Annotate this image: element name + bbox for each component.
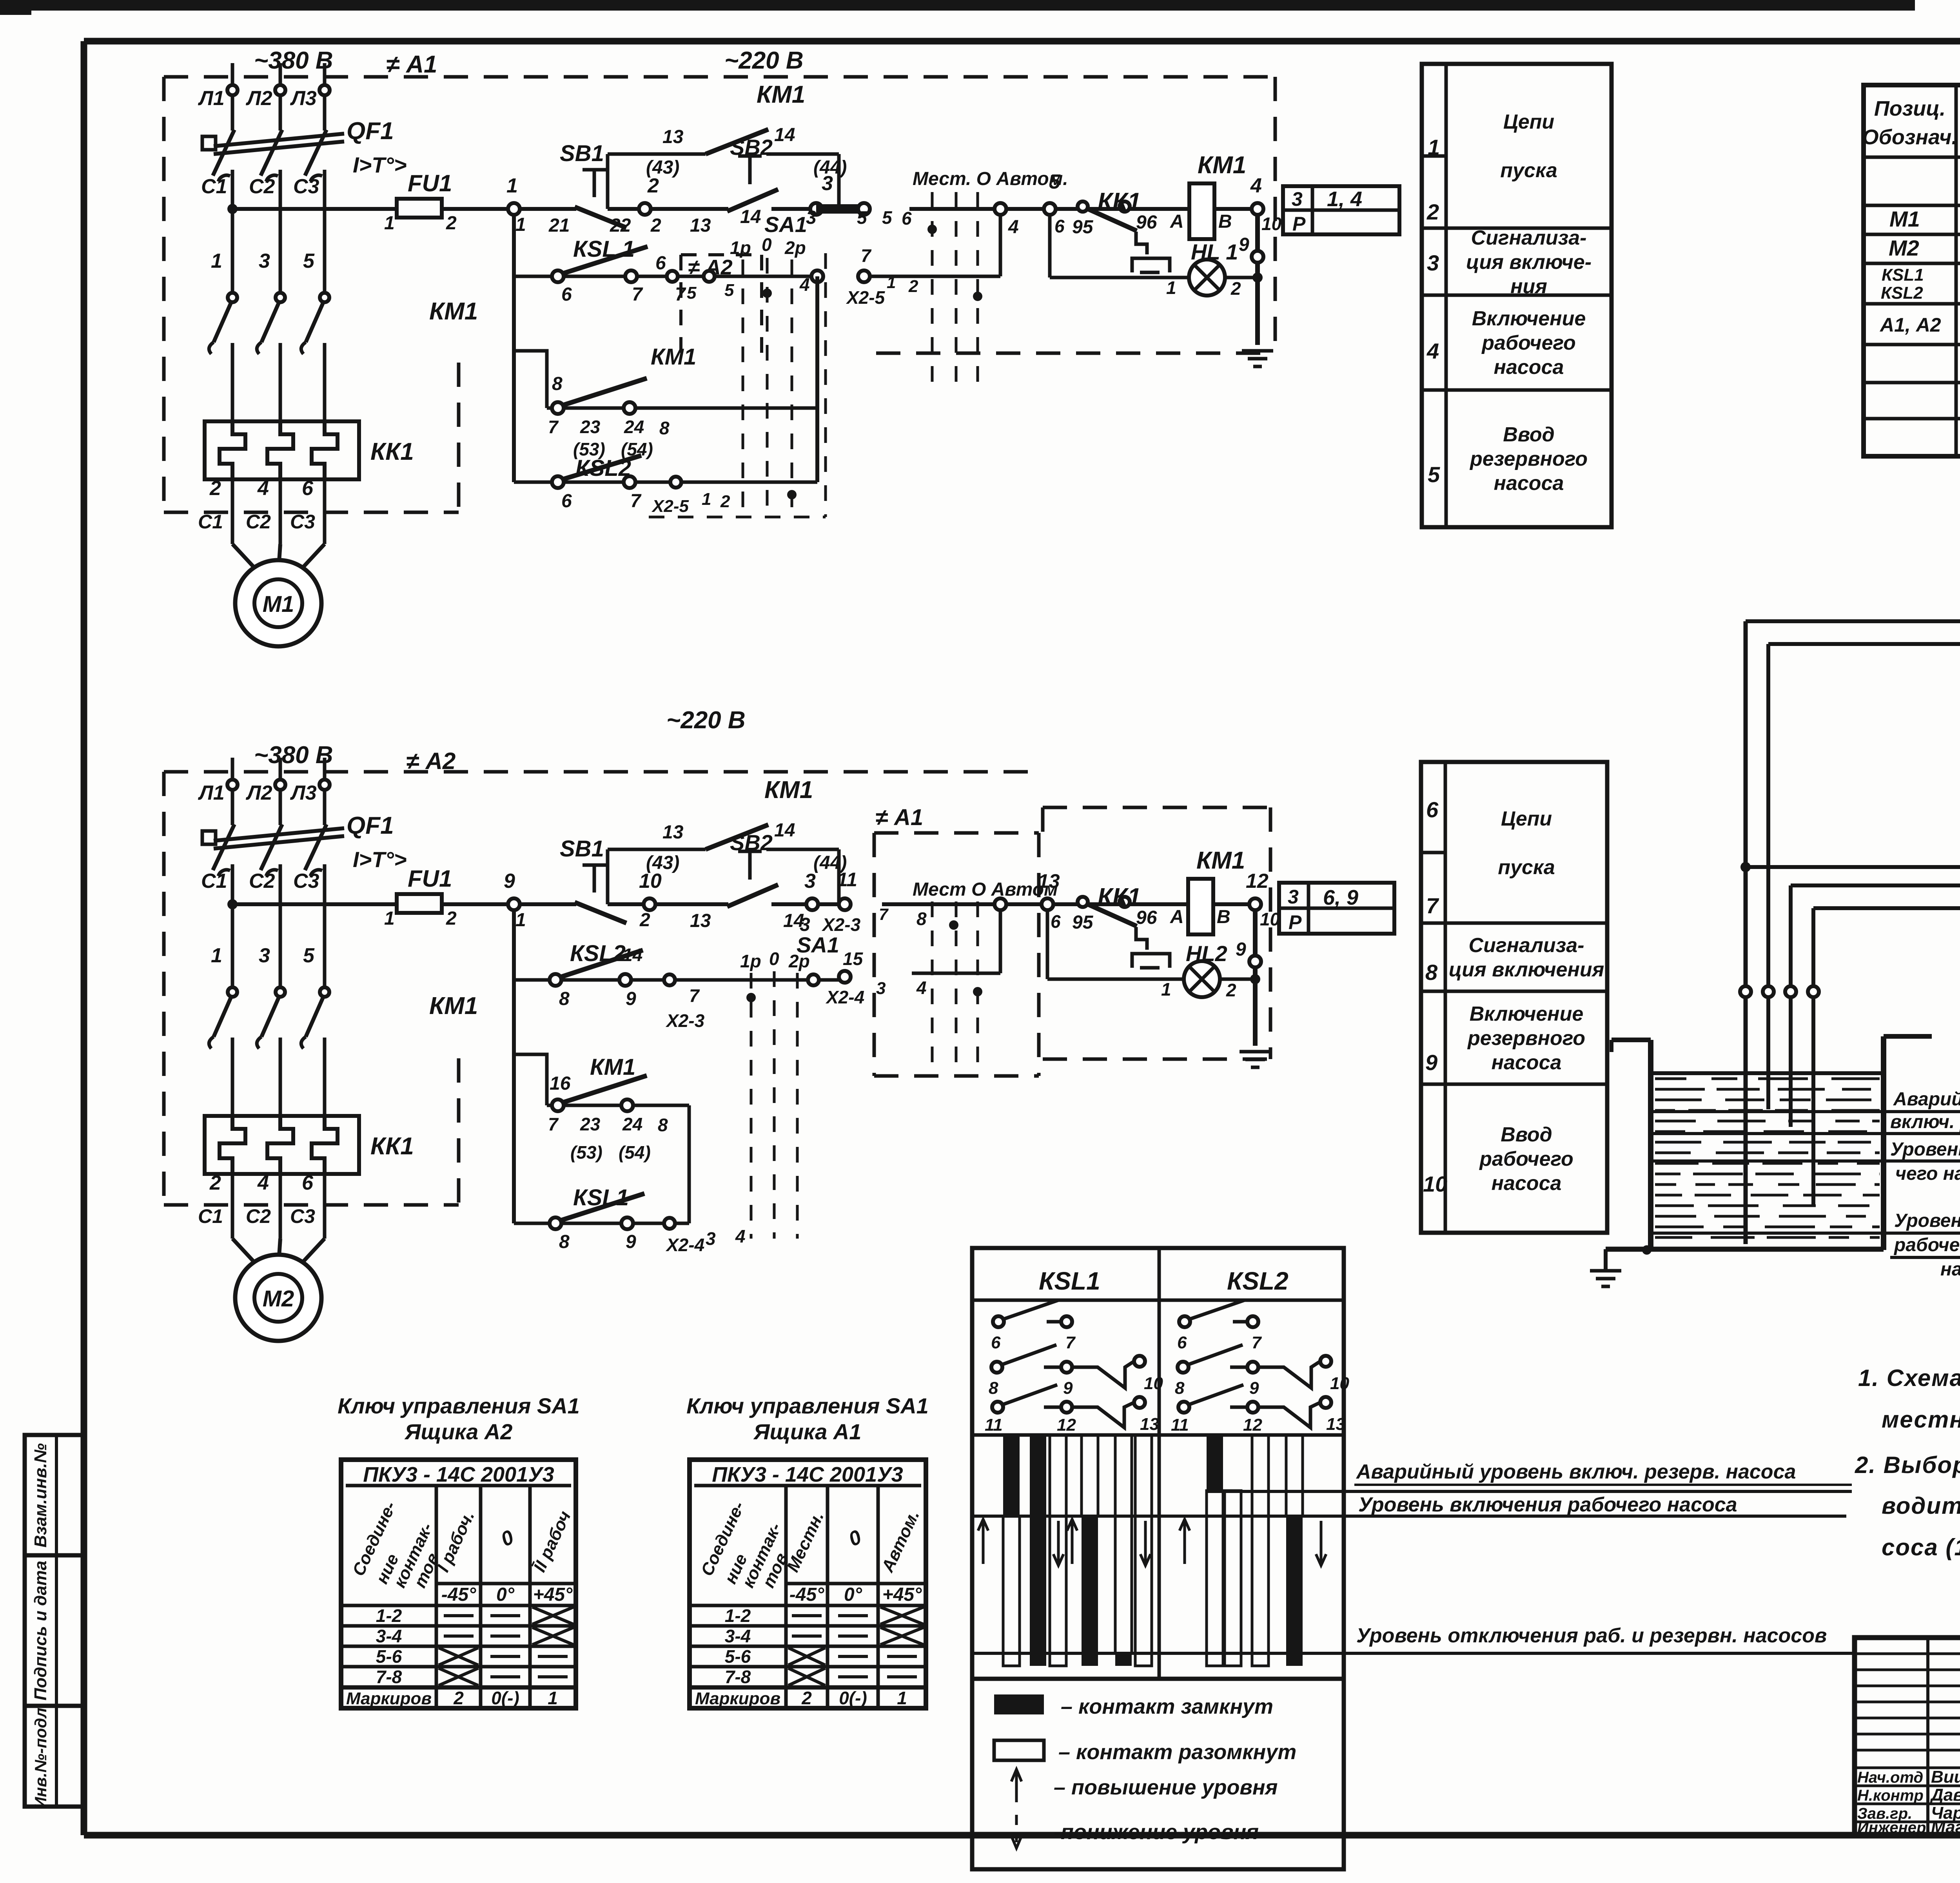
svg-text:QF1: QF1 [347,118,394,145]
cabinet A1 dashed boundary [164,77,1275,512]
wire thermal relay to motor lead 4 (М2) [279,1174,282,1239]
svg-text:24: 24 [622,1114,642,1134]
rating table 6.9 [1279,883,1394,934]
svg-text:10: 10 [1261,214,1282,234]
auxiliary contact KM1 23-24 bottom [514,1054,689,1163]
chart state column x3078 [1207,1435,1223,1666]
svg-text:7: 7 [1252,1333,1262,1352]
wire node4 vertical to KSL2 row [815,276,819,482]
holding contact KM1 13-14 branch [608,81,847,209]
terminal label 5 (М1) [303,250,315,272]
wire contactor to thermal relay (М1) [279,343,282,423]
wire contactor to thermal relay (М1) [323,343,327,423]
svg-text:SB1: SB1 [560,141,604,166]
SA1 dot on Автом column bottom [973,987,982,996]
svg-text:КМ1: КМ1 [590,1054,635,1080]
svg-text:1: 1 [1428,135,1440,160]
svg-text:16: 16 [550,1073,571,1094]
auxiliary contact KM1 23-24 [514,344,817,459]
svg-text:8: 8 [658,1115,668,1135]
svg-text:13: 13 [1140,1415,1159,1434]
terminal label 3 (М2) [259,944,270,967]
cabinet A2 dashed boundary [164,772,1039,1205]
svg-text:1. Схема предусматривает упр: 1. Схема предусматривает управление насо… [1858,1365,1960,1391]
svg-text:15: 15 [843,949,864,969]
wire electrode 2 riser [1766,644,1770,1109]
svg-text:местном и автоматическом.: местном и автоматическом. [1882,1406,1960,1433]
svg-text:6: 6 [991,1333,1001,1352]
key table box А1 [690,1460,926,1708]
chart legend box [972,1679,1344,1869]
svg-text:Н.контр: Н.контр [1857,1787,1924,1804]
svg-text:3: 3 [804,870,816,893]
start button SB2 bottom [690,830,804,931]
terminal label 1 (М1) [211,250,222,272]
cell text Ввод [1479,1123,1573,1195]
svg-text:Х2-4: Х2-4 [665,1235,704,1255]
label C2 lower (М2) [246,1205,271,1227]
row number separators [1421,851,1445,854]
selector SA1 mode columns [913,169,1068,386]
svg-text:КSL2: КSL2 [575,455,631,481]
start button SB2 [690,135,778,236]
node 4/10 right [1250,174,1282,234]
chart state column x2678 [1050,1435,1066,1666]
terminal label 3 (М1) [259,250,270,272]
legend понижение уровня [1011,1815,1259,1848]
wire 19 to KSL1 [1791,885,1960,951]
svg-text:1: 1 [548,1688,558,1708]
svg-text:– повышение уровня: – повышение уровня [1054,1776,1278,1799]
svg-text:1: 1 [515,214,526,235]
title block approval grid [1855,1638,1960,1835]
terminal Л2 (М2) [245,780,285,804]
svg-text:ния: ния [1510,275,1547,298]
svg-text:FU1: FU1 [408,170,452,196]
terminal label 1 (М2) [211,944,222,967]
ground symbol tank [1590,1249,1621,1286]
svg-text:13: 13 [1326,1415,1345,1434]
~380V supply label (М2 feeder) [254,742,333,769]
svg-text:95: 95 [1072,912,1094,933]
chart state column x3194 [1252,1435,1269,1666]
svg-text:6: 6 [302,477,314,500]
key table row 5-6 А2 [376,1646,568,1667]
SA1 dot on Автом column [973,292,982,301]
parts row KSL1 KSL2 [1881,265,1960,303]
parts list table grid [1864,85,1960,456]
terminal Л1 (М1) [198,85,238,110]
svg-text:Р: Р [1292,213,1306,235]
wire phase Л3 drop (М1) [323,63,327,131]
svg-text:пуска: пуска [1498,856,1555,879]
svg-text:+45°: +45° [882,1584,922,1605]
svg-text:5: 5 [1049,171,1061,193]
svg-text:0: 0 [769,949,779,969]
key table marking row А2 [346,1688,558,1708]
svg-text:2: 2 [650,215,661,236]
node 6 on KSL1 row [655,253,686,305]
svg-text:10: 10 [1144,1374,1163,1393]
svg-text:13: 13 [690,215,711,236]
svg-text:I>T°>: I>T°> [353,152,407,177]
row numbers [1423,797,1447,1196]
terminal label 2 (М1) [209,477,221,500]
svg-text:Мест О Автом: Мест О Автом [913,879,1058,900]
chart contact 11-12-13 KSL2 [1171,1385,1345,1435]
svg-text:11: 11 [1171,1415,1189,1435]
svg-text:пуска: пуска [1500,159,1557,182]
svg-text:6: 6 [902,208,912,229]
note 1 line 2 [1882,1406,1960,1433]
svg-text:Аварийный уровень: Аварийный уровень [1893,1089,1960,1110]
node 13 bottom [1038,870,1061,932]
SA1 closed position dot (Мест) [927,225,937,234]
chart contact 6-7 KSL2 [1177,1300,1262,1352]
wire 20 to KSL1 [1813,908,1960,951]
svg-text:3: 3 [806,207,817,228]
svg-text:насоса: насоса [1940,1259,1960,1280]
svg-text:3-4: 3-4 [725,1626,751,1646]
chart contact 11-12-13 KSL1 [985,1385,1159,1435]
ground symbol bottom circuit [1240,1052,1271,1067]
wire to signal lamp branch [1050,215,1263,345]
svg-text:5: 5 [303,250,315,272]
tank water hatching [1655,1079,1880,1237]
chart label уровень включения [1358,1493,1737,1516]
svg-text:Маркиров: Маркиров [695,1689,780,1708]
svg-text:Обознач.: Обознач. [1862,125,1957,149]
chart contact 8-9-10 KSL1 [989,1345,1163,1398]
cell text Ввод [1469,423,1588,495]
svg-text:КК1: КК1 [1098,188,1141,215]
chart state column x2627 [1030,1435,1046,1666]
svg-text:I>T°>: I>T°> [353,847,407,872]
svg-text:насоса: насоса [1494,356,1564,379]
svg-text:13: 13 [662,127,684,147]
contact chart box [972,1248,1344,1679]
svg-text:QF1: QF1 [347,812,394,839]
svg-text:5: 5 [1428,462,1440,487]
approval row Зав.гр. [1857,1803,1960,1823]
svg-text:Включение: Включение [1470,1003,1584,1025]
terminal label 6 (М1) [302,477,314,500]
wire phase Л1 drop (М1) [231,63,234,131]
key table angle row А2 [441,1584,573,1605]
svg-text:21: 21 [548,215,570,236]
svg-text:14: 14 [774,125,795,145]
svg-text:8: 8 [916,909,927,929]
svg-text:1р: 1р [740,951,761,971]
svg-text:А: А [1170,211,1184,232]
svg-text:Ввод: Ввод [1501,1123,1552,1146]
svg-text:4: 4 [1250,174,1262,197]
wire contactor to thermal relay (М2) [231,1038,234,1117]
note 1 line 1 [1858,1365,1960,1391]
terminal label 4 (М1) [257,477,269,500]
approval row Нач.отд [1857,1767,1960,1787]
terminal label 5 (М2) [303,944,315,967]
svg-text:3: 3 [1292,188,1303,210]
svg-text:резервного: резервного [1467,1027,1585,1050]
svg-text:М2: М2 [1889,236,1919,260]
svg-text:≠ А2: ≠ А2 [406,748,456,774]
svg-text:11: 11 [985,1415,1003,1435]
label C1 upper (М2) [201,870,227,893]
wire phase 3 to contactor (М2) [323,864,327,987]
svg-text:– контакт разомкнут: – контакт разомкнут [1058,1740,1296,1764]
svg-text:C3: C3 [293,175,319,198]
svg-text:Позиц.: Позиц. [1874,97,1945,120]
svg-text:9: 9 [626,989,636,1009]
svg-text:~220 В: ~220 В [724,47,804,74]
margin label Взам.инв.№ [31,1443,50,1547]
svg-text:2: 2 [908,277,918,296]
svg-text:рабочего: рабочего [1479,1148,1573,1170]
svg-text:5: 5 [303,944,315,967]
contactor coil KM1 bottom [1170,847,1245,934]
svg-text:8: 8 [659,418,670,438]
legend контакт замкнут [994,1694,1273,1718]
title block outer box [1855,1638,1960,1835]
svg-text:Инженер: Инженер [1857,1819,1926,1836]
terminal Л1 (М2) [198,780,238,804]
wire 18 to KSL2 [1768,644,1960,682]
terminal X2-5 pin 7 [846,245,918,308]
cell text Включение [1472,307,1586,379]
svg-text:Цепи: Цепи [1503,111,1554,133]
wires converging into motor М2 [232,1239,325,1266]
key table title А1 [686,1393,929,1444]
dashed box around output section bottom [1043,807,1270,1059]
svg-text:23: 23 [580,1114,601,1134]
node 6 junction [1044,171,1065,236]
svg-text:HL2: HL2 [1186,941,1227,966]
svg-text:чего насоса: чего насоса [1895,1163,1960,1184]
svg-text:Взам.инв.№: Взам.инв.№ [31,1443,50,1547]
key table title А2 [338,1393,580,1444]
label C3 upper (М2) [293,870,319,893]
svg-text:7-8: 7-8 [376,1667,402,1687]
svg-text:2р: 2р [788,951,810,971]
electrode junction circles [1740,986,1819,997]
svg-text:4: 4 [1426,339,1439,363]
fuse FU1 bottom [384,865,457,929]
svg-text:1-2: 1-2 [376,1605,402,1626]
svg-text:6: 6 [655,253,666,274]
wire thermal relay to motor lead 6 (М2) [323,1174,327,1239]
svg-text:Маркиров: Маркиров [346,1689,432,1708]
node 4 on local row [799,270,823,295]
svg-text:КМ1: КМ1 [764,776,813,804]
node 12 right bottom [1246,870,1280,929]
contactor KM1 main contacts (М1) [209,293,478,354]
wire aux to KSL1 row bottom [688,1105,691,1223]
svg-text:Сигнализа-: Сигнализа- [1469,934,1584,957]
node 3 [806,172,833,228]
svg-text:6: 6 [1054,216,1065,236]
cell text Сигнализа- [1449,934,1604,981]
key table row 5-6 А1 [725,1646,917,1667]
switch SA1 closed contact bar [816,204,864,214]
wire node1 vertical drop [512,215,516,482]
svg-text:1: 1 [506,174,518,197]
svg-text:КМ1: КМ1 [1198,152,1246,179]
wire main control line bottom segments [232,902,1255,906]
wire phase Л3 drop (М2) [323,758,327,825]
margin label Инв.№ подл. [31,1703,50,1809]
note 2 line 1 [1855,1452,1960,1478]
label C1 upper (М1) [201,175,227,198]
parts row M2 [1889,236,1960,262]
contactor coil KM1 [1170,152,1246,239]
svg-text:6: 6 [561,491,572,512]
svg-text:SА1: SА1 [764,212,807,237]
terminal Л3 (М2) [290,780,330,804]
svg-text:7: 7 [879,905,889,923]
parts row M1 [1889,207,1960,233]
svg-text:0°: 0° [844,1584,862,1605]
svg-text:0: 0 [762,234,772,255]
legend повышение уровня [1011,1769,1278,1802]
svg-text:1: 1 [211,944,222,967]
thermal relay KK1 heaters (М2) [205,1116,414,1174]
svg-text:4: 4 [916,978,927,998]
svg-text:Л3: Л3 [290,782,317,804]
svg-text:7: 7 [1065,1333,1076,1352]
svg-text:Ящика А1: Ящика А1 [753,1419,862,1444]
svg-text:5-6: 5-6 [376,1646,402,1667]
svg-text:1: 1 [384,908,395,929]
svg-text:14: 14 [774,820,795,841]
level label авар резерв [1651,1089,1960,1134]
key table angle row А1 [789,1584,922,1605]
svg-text:Л2: Л2 [245,782,272,804]
label C3 lower (М2) [290,1205,315,1227]
svg-text:В: В [1217,907,1230,927]
svg-text:+45°: +45° [533,1584,573,1605]
chart label аварийный уровень [1354,1460,1852,1485]
margin stamp box [25,1435,84,1807]
terminal X2-3 pin 7 bottom [664,974,705,1031]
svg-text:13: 13 [690,911,711,931]
wire thermal relay to motor lead 2 (М1) [231,479,234,544]
svg-text:~220 В: ~220 В [666,707,746,734]
svg-text:9: 9 [1249,1379,1259,1398]
key table row 7-8 А1 [725,1667,917,1687]
svg-text:C1: C1 [201,175,227,198]
svg-text:2р: 2р [784,238,806,258]
wire common to net 22 [1746,865,1960,869]
wire thermal relay to motor lead 6 (М1) [323,479,327,544]
svg-text:8: 8 [989,1379,998,1398]
chart header KSL2 [1227,1267,1289,1295]
approval row Н.контр [1857,1785,1960,1805]
svg-text:КК1: КК1 [370,1133,414,1160]
wire thermal relay to motor lead 4 (М1) [279,479,282,544]
svg-text:-45°: -45° [789,1584,824,1605]
svg-text:Уровень включ. рабо-: Уровень включ. рабо- [1890,1139,1960,1160]
svg-text:≠ А1: ≠ А1 [875,805,923,830]
thermal relay contact KK1 95-96 [1072,188,1170,272]
circuit function table box [1422,64,1612,527]
key table marking row А1 [695,1688,907,1708]
ground symbol top circuit [1242,351,1273,366]
svg-text:10: 10 [1330,1374,1349,1393]
resistance monitor contact KSL1 6-7 [514,236,817,305]
svg-text:Р: Р [1289,911,1302,933]
svg-text:насоса: насоса [1492,1051,1562,1074]
level label включ рабочего [1651,1139,1960,1184]
svg-text:М1: М1 [1889,207,1920,231]
svg-text:Ключ управления SА1: Ключ управления SА1 [686,1393,929,1418]
svg-text:1: 1 [384,213,395,234]
svg-text:2: 2 [1230,278,1241,299]
svg-text:22: 22 [610,215,631,236]
svg-text:~380 В: ~380 В [254,742,333,769]
svg-text:C2: C2 [249,870,275,893]
terminal X2-4 pin 15 [825,949,886,1007]
circuit breaker QF1 (М1) [202,118,407,181]
svg-text:12: 12 [1243,1415,1262,1435]
margin label Подпись и дата [31,1561,50,1701]
svg-text:А1, А2: А1, А2 [1879,314,1941,336]
wire contactor to thermal relay (М2) [279,1038,282,1117]
cabinet A2 tap dashed box [681,255,762,363]
svg-text:Х2-3: Х2-3 [665,1010,705,1031]
svg-text:0(-): 0(-) [491,1688,519,1708]
svg-text:Уровень отключения: Уровень отключения [1894,1210,1960,1231]
terminal X2-4 pin 3 bottom [664,1218,746,1255]
svg-text:2: 2 [446,213,457,234]
key table rotated headers А2 [349,1498,575,1591]
resistance monitor contact KSL2 8-9 bottom [514,941,845,1009]
svg-text:8: 8 [559,989,570,1009]
SA1 dot column 1p bottom [746,993,756,1002]
wire contactor to thermal relay (М2) [323,1038,327,1117]
chart state column x2896 [1135,1435,1152,1666]
svg-text:8: 8 [559,1232,570,1252]
signal lamp HL2 [1161,941,1236,1000]
svg-text:-45°: -45° [441,1584,476,1605]
resistance monitor contact KSL1 8-9 bottom [514,1185,689,1252]
resistance monitor contact KSL2 6-7 [514,455,817,516]
chart state column x3124 [1225,1491,1241,1666]
svg-text:12: 12 [1057,1415,1076,1435]
wire SA1 auto row to node 4 [870,215,1000,276]
cell text Цепи [1500,111,1557,182]
scan artifact black bar top [0,0,1915,15]
svg-text:C1: C1 [198,1205,223,1227]
circuit function table box [1421,762,1607,1233]
label ~220V top [724,47,804,74]
note 2 line 3 [1882,1534,1960,1560]
svg-text:1: 1 [1161,979,1171,1000]
selector SA1 columns bottom 1p-0-2p [740,932,839,1239]
node 5 terminal [857,203,912,229]
svg-text:6: 6 [1177,1333,1187,1352]
svg-text:96: 96 [1136,212,1157,233]
svg-text:КМ1: КМ1 [651,344,696,370]
thermal relay KK1 heaters (М1) [205,421,414,479]
svg-text:– контакт замкнут: – контакт замкнут [1061,1695,1273,1718]
svg-text:8: 8 [1425,960,1438,985]
level label отключения [1651,1210,1960,1280]
svg-text:Нач.отд: Нач.отд [1857,1769,1923,1786]
svg-text:5: 5 [724,281,734,300]
row numbers [1426,135,1440,487]
svg-text:2: 2 [446,908,457,929]
